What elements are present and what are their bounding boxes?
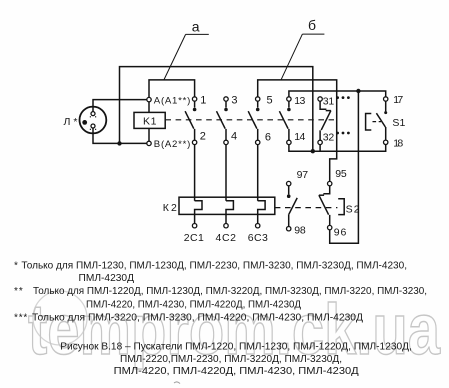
svg-text:Только для ПМЛ-3220, ПМЛ-3230,: Только для ПМЛ-3220, ПМЛ-3230, ПМЛ-4220,… <box>32 312 363 323</box>
heater element pole 1 <box>195 201 202 224</box>
svg-text:б: б <box>308 17 316 33</box>
terminal 6C3 <box>256 224 260 228</box>
watermark <box>28 291 440 370</box>
coil terminal A <box>147 97 151 101</box>
wire bridge a: terminal A to contact 1 <box>149 80 195 98</box>
wire top bus (B node to aux circuit) <box>120 67 313 152</box>
svg-text:Только для ПМЛ-1230, ПМЛ-1230Д: Только для ПМЛ-1230, ПМЛ-1230Д, ПМЛ-2230… <box>21 261 407 272</box>
thermal relay K2 <box>179 197 275 228</box>
svg-text:14: 14 <box>294 131 305 143</box>
svg-text:98: 98 <box>294 224 306 236</box>
svg-text:13: 13 <box>294 95 305 107</box>
svg-text:Л*: Л* <box>64 116 78 128</box>
svg-text:S1: S1 <box>392 117 405 129</box>
wire contact 4 to K2 <box>225 145 227 201</box>
svg-text:K1: K1 <box>143 115 157 127</box>
wire 32 drop to bottom aux bus <box>319 145 321 152</box>
contact K1.4 (13-14) <box>279 97 291 145</box>
footnote * line 1 <box>14 261 427 324</box>
bottom small artifact <box>174 382 180 384</box>
svg-text:95: 95 <box>335 168 347 180</box>
wire contact 2 to K2 <box>194 145 196 201</box>
svg-text:6: 6 <box>265 132 271 144</box>
svg-text:17: 17 <box>393 94 403 106</box>
svg-text:ПМЛ-2220,ПМЛ-2230, ПМЛ-3220Д,: ПМЛ-2220,ПМЛ-2230, ПМЛ-3220Д, ПМЛ-3230Д, <box>120 354 342 365</box>
svg-text:*: * <box>14 261 18 272</box>
svg-text:а: а <box>192 19 200 35</box>
svg-text:ПМЛ-4220, ПМЛ-4230, ПМЛ-4220Д,: ПМЛ-4220, ПМЛ-4230, ПМЛ-4220Д, ПМЛ-4230Д <box>86 300 301 311</box>
caption <box>60 342 412 378</box>
wire 13 to 17 (top aux bus) <box>289 91 386 97</box>
plug connector Л* <box>80 107 107 134</box>
wire plug bottom pin to coil terminal B <box>92 128 147 143</box>
contact K1.1 (1-2) <box>185 97 197 145</box>
wire contact 6 to K2 <box>257 145 259 201</box>
svg-text:18: 18 <box>393 137 403 149</box>
button S1 (17-18) <box>366 97 388 145</box>
heater element pole 2 <box>226 201 233 224</box>
contact K2 95-96 normally closed with S2 release <box>319 181 344 229</box>
coil terminal B <box>147 141 151 145</box>
svg-text:2С1: 2С1 <box>184 232 204 244</box>
contact K1.3 (5-6) <box>248 97 260 145</box>
heater element pole 3 <box>258 201 265 224</box>
coil K1 <box>134 102 165 141</box>
terminal 4C2 <box>224 224 228 228</box>
svg-text:96: 96 <box>334 227 347 239</box>
mechanical link K1 (dashed) <box>165 119 334 121</box>
wire riser from aux bus down and to 96 <box>330 91 359 243</box>
svg-text:ПМЛ-4230Д: ПМЛ-4230Д <box>79 273 135 284</box>
junction dot aux bus to 96 riser <box>356 89 360 93</box>
wire plug top pin to coil terminal A <box>92 100 147 112</box>
svg-text:ПМЛ-4220, ПМЛ-4220Д, ПМЛ-423: ПМЛ-4220, ПМЛ-4220Д, ПМЛ-4230, ПМЛ-4230Д <box>114 366 359 377</box>
svg-text:5: 5 <box>267 95 273 107</box>
svg-text:32: 32 <box>323 131 335 143</box>
svg-text:4: 4 <box>231 131 237 143</box>
svg-text:Только для ПМЛ-1220Д, ПМЛ-1230: Только для ПМЛ-1220Д, ПМЛ-1230Д, ПМЛ-322… <box>33 286 427 297</box>
svg-text:К2: К2 <box>163 202 177 214</box>
wire bridge б: contact 5 to thermal contact 95 <box>258 80 337 181</box>
svg-text:***: *** <box>14 312 28 323</box>
svg-text:97: 97 <box>297 169 309 181</box>
junction dot right riser on 14-18 wire <box>311 149 315 153</box>
svg-text:1: 1 <box>200 95 206 107</box>
svg-text:B(A2**): B(A2**) <box>154 139 191 150</box>
marker *** beside 32 <box>336 132 350 135</box>
label a with leader <box>164 19 209 80</box>
svg-text:6С3: 6С3 <box>248 232 268 244</box>
contact K1.2 (3-4) <box>217 97 229 145</box>
svg-text:31: 31 <box>323 95 335 107</box>
svg-text:A(A1**): A(A1**) <box>154 95 191 106</box>
svg-text:3: 3 <box>231 95 237 107</box>
svg-text:Рисунок В.18 – Пускатели ПМЛ-1: Рисунок В.18 – Пускатели ПМЛ-1220, ПМЛ-1… <box>60 342 412 353</box>
svg-text:S2: S2 <box>346 204 360 216</box>
junction dot left riser on plug bottom wire <box>117 141 121 145</box>
contact K1.5 (31-32) normally closed <box>318 97 331 145</box>
svg-text:2: 2 <box>200 131 206 143</box>
svg-text:4С2: 4С2 <box>216 232 237 244</box>
svg-text:**: ** <box>14 286 24 297</box>
marker *** beside 31 <box>336 96 350 99</box>
wire 14 to 18 (bottom aux bus) <box>289 145 386 152</box>
mechanical link K2 (dashed) <box>275 207 338 209</box>
terminal 2C1 <box>192 224 196 228</box>
contact K2 97-98 <box>287 181 298 230</box>
label б with leader <box>281 17 324 80</box>
